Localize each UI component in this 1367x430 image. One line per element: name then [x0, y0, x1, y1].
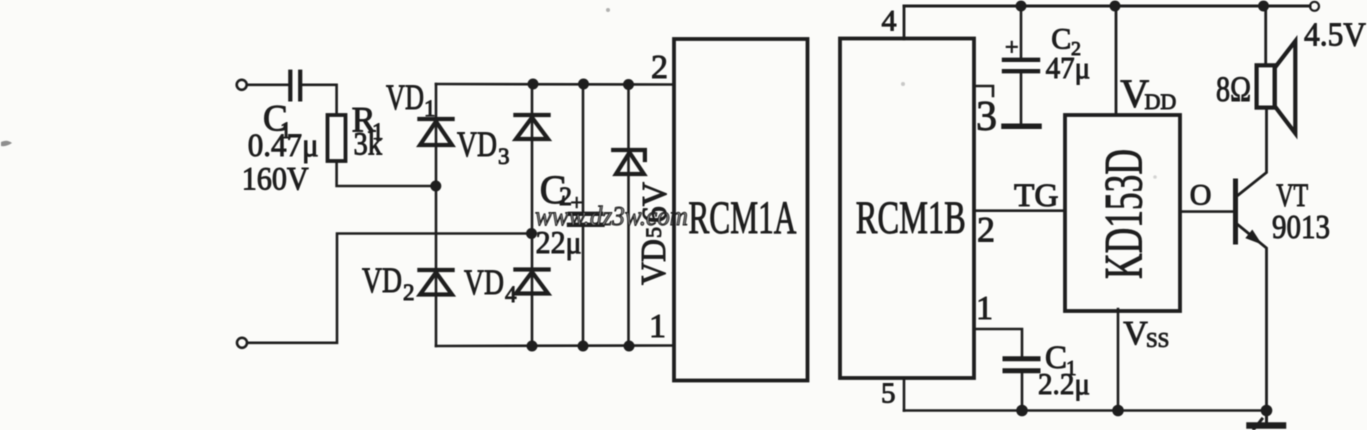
wire pin5 riser: [903, 378, 906, 411]
svg-text:3: 3: [976, 94, 997, 140]
capacitor C2 47u end bar: [1004, 123, 1039, 129]
junction dot bottom rail at VD3: [527, 341, 538, 352]
svg-text:VD: VD: [386, 77, 424, 117]
svg-text:+: +: [1005, 35, 1019, 61]
junction dot bottom rail at C2: [578, 341, 589, 352]
svg-text:160V: 160V: [242, 162, 309, 198]
svg-text:TG: TG: [1014, 178, 1059, 214]
wire VD3/VD4 vertical line: [531, 84, 534, 346]
wire TG: [974, 209, 1065, 212]
capacitor C1 2.2u plates: [1005, 359, 1038, 371]
IC RCM1A: [674, 39, 808, 381]
pin 3 stub: [974, 86, 993, 96]
svg-text:SS: SS: [1146, 328, 1169, 352]
svg-text:RCM1B: RCM1B: [856, 192, 966, 244]
junction dot top rail at VD3: [528, 79, 539, 90]
transistor emitter: [1237, 224, 1267, 411]
svg-text:2: 2: [651, 49, 668, 86]
wire bottom-terminal to node B: [247, 234, 531, 343]
resistor R1: [328, 115, 346, 161]
svg-text:1: 1: [649, 308, 666, 345]
diode VD1: [419, 119, 452, 145]
svg-text:2: 2: [403, 280, 415, 305]
wire VD5 vertical line: [627, 84, 630, 346]
svg-text:KD153D: KD153D: [1094, 149, 1154, 279]
svg-text:47μ: 47μ: [1046, 50, 1091, 85]
diode VD2: [419, 270, 452, 295]
IC KD153D: [1065, 115, 1180, 311]
wire top-terminal to C1: [247, 84, 288, 87]
ground: [1250, 411, 1284, 430]
junction dot top rail at C2 47u: [1016, 1, 1027, 12]
capacitor C2 22u: [569, 214, 603, 225]
svg-text:www.dz3w.com: www.dz3w.com: [535, 201, 688, 231]
diode VD3: [515, 115, 548, 139]
svg-text:1: 1: [424, 96, 436, 121]
zener diode VD5: [613, 150, 645, 174]
diode VD4: [515, 270, 548, 294]
svg-text:RCM1A: RCM1A: [688, 192, 796, 244]
svg-text:VD: VD: [634, 239, 673, 285]
svg-text:5: 5: [881, 378, 896, 410]
wire O output: [1180, 210, 1233, 213]
capacitor C1: [290, 72, 300, 100]
svg-text:V: V: [1123, 315, 1148, 352]
svg-text:9013: 9013: [1272, 209, 1330, 246]
wire bottom rail right: [904, 409, 1267, 412]
svg-text:VD: VD: [457, 124, 497, 164]
wire speaker top: [1264, 6, 1267, 65]
terminal input top: [237, 80, 247, 90]
junction dot top rail at VD5: [623, 79, 634, 90]
wire C1 to R1: [302, 85, 336, 115]
transistor VT base bar: [1233, 181, 1238, 242]
wire top rail left: [436, 83, 674, 86]
junction dot bottom rail at VD5: [624, 341, 635, 352]
node B junction dot: [526, 228, 537, 239]
svg-text:8Ω: 8Ω: [1216, 69, 1251, 109]
scan speck: [1153, 175, 1157, 179]
svg-text:2.2μ: 2.2μ: [1038, 366, 1090, 401]
transistor emitter arrow: [1245, 230, 1262, 245]
svg-text:4: 4: [505, 282, 517, 307]
wire C2 vertical line lower: [582, 227, 585, 346]
svg-text:VD: VD: [464, 262, 504, 302]
wire C2 vertical line upper: [582, 84, 585, 212]
terminal 4.5V: [1310, 2, 1319, 11]
capacitor C2 47u plates: [1004, 60, 1038, 71]
svg-text:3k: 3k: [354, 127, 383, 163]
svg-text:VD: VD: [362, 260, 402, 300]
junction dot top rail at speaker: [1258, 1, 1269, 12]
capacitor C2 47u branch wire upper: [1020, 6, 1023, 58]
svg-text:0.47μ: 0.47μ: [248, 128, 319, 164]
wire R1 to node A: [337, 161, 436, 186]
label KD153D (rotated): [1094, 149, 1154, 279]
speaker: [1257, 41, 1296, 133]
capacitor C2 47u branch wire lower: [1020, 73, 1023, 123]
wire pin4 riser: [903, 6, 906, 39]
svg-text:4: 4: [882, 5, 897, 38]
svg-text:2: 2: [977, 210, 995, 250]
junction dot bottom rail at emitter: [1261, 405, 1273, 417]
junction dot bottom rail at C1: [1016, 405, 1028, 417]
wire VSS: [1117, 309, 1120, 411]
svg-text:1: 1: [976, 290, 993, 327]
terminal input bottom: [237, 338, 247, 348]
label VD5 6V (rotated): [634, 182, 674, 285]
wire top rail right: [904, 5, 1310, 8]
node A junction dot: [430, 181, 441, 192]
transistor collector: [1237, 108, 1267, 196]
scan smudge: [1, 141, 12, 146]
capacitor C1 lower wire: [1021, 373, 1024, 411]
svg-text:3: 3: [498, 144, 510, 169]
svg-text:O: O: [1190, 179, 1212, 212]
wire VDD: [1115, 6, 1118, 115]
wire bottom rail left: [436, 344, 674, 347]
IC RCM1B: [840, 39, 974, 379]
wire pin1 to C1: [974, 329, 1022, 356]
scan speck: [901, 82, 905, 86]
junction dot top rail at VDD: [1110, 1, 1121, 12]
junction dot top rail at C2: [578, 79, 589, 90]
junction dot bottom rail at VSS: [1112, 405, 1124, 417]
scan speck: [606, 8, 610, 12]
svg-text:4.5V: 4.5V: [1304, 17, 1366, 54]
svg-text:DD: DD: [1145, 89, 1177, 114]
wire VD1/VD2 vertical line: [435, 84, 438, 346]
